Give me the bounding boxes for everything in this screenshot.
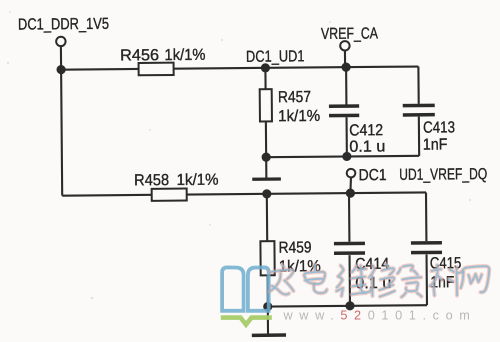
svg-text:C413: C413 [423, 119, 455, 136]
svg-text:0.1 u: 0.1 u [349, 138, 385, 155]
svg-text:R457: R457 [278, 89, 311, 106]
svg-text:1k/1%: 1k/1% [164, 47, 205, 64]
svg-text:R458: R458 [134, 172, 169, 189]
svg-text:UD1_VREF_DQ: UD1_VREF_DQ [399, 166, 487, 184]
svg-text:DC1: DC1 [359, 167, 387, 184]
svg-text:1k/1%: 1k/1% [177, 172, 219, 189]
svg-text:DC1_DDR_1V5: DC1_DDR_1V5 [18, 16, 109, 34]
svg-text:1nF: 1nF [423, 136, 448, 153]
svg-text:R459: R459 [279, 239, 312, 256]
svg-text:R456: R456 [120, 47, 159, 64]
svg-text:DC1_UD1: DC1_UD1 [246, 48, 305, 66]
svg-text:www.520101.com: www.520101.com [283, 308, 477, 323]
svg-text:C412: C412 [349, 122, 383, 139]
svg-text:VREF_CA: VREF_CA [321, 25, 378, 42]
svg-text:1k/1%: 1k/1% [278, 108, 320, 125]
